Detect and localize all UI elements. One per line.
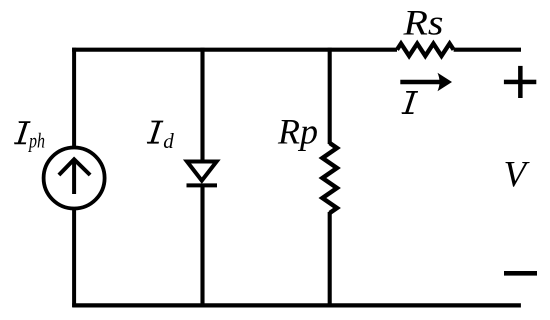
wire top horizontal right segment [454, 48, 521, 52]
diode D1 triangle [187, 162, 217, 181]
wire top horizontal left segment [72, 48, 397, 52]
resistor Rs zigzag [397, 44, 454, 56]
wire Rp branch upper [328, 48, 332, 144]
svg-text:d: d [163, 129, 174, 153]
label I [402, 91, 419, 114]
label I_ph [14, 121, 31, 144]
plus terminal [504, 66, 536, 98]
wire left branch lower [72, 210, 76, 307]
label I_d [147, 121, 164, 144]
current source U1 circle [44, 148, 105, 209]
minus terminal [504, 271, 537, 276]
current source U1 arrow head [59, 159, 90, 175]
diode D1 cathode bar [187, 183, 218, 187]
current arrow I shaft [400, 80, 444, 85]
svg-text:V: V [504, 155, 531, 196]
svg-text:Rs: Rs [402, 3, 443, 43]
current arrow I head [438, 73, 453, 91]
wire bottom horizontal [72, 303, 521, 307]
wire diode branch upper [200, 48, 204, 162]
wire left branch upper [72, 48, 76, 146]
svg-text:Rp: Rp [277, 112, 318, 152]
current source U1 arrow shaft [72, 160, 76, 194]
svg-text:ph: ph [27, 128, 45, 152]
resistor Rp zigzag [322, 143, 337, 213]
wire diode branch lower [200, 185, 204, 307]
wire Rp branch lower [328, 212, 332, 307]
